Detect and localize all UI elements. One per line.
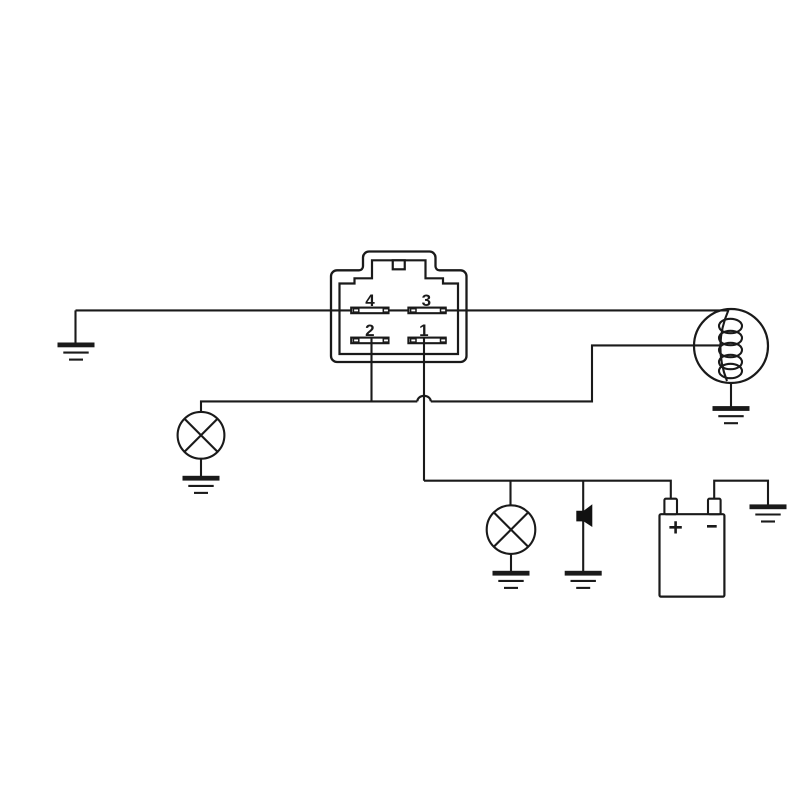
svg-text:2: 2: [365, 321, 374, 340]
svg-text:1: 1: [419, 321, 428, 340]
svg-text:3: 3: [422, 291, 431, 310]
svg-text:4: 4: [365, 291, 375, 310]
